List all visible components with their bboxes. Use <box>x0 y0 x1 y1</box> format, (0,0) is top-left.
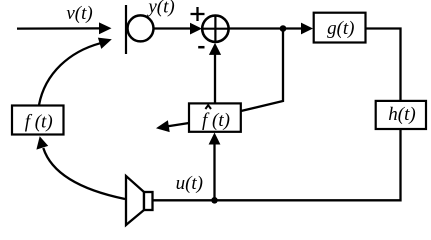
label + (plus sign at summer) <box>191 7 205 21</box>
svg-text:h(t): h(t) <box>388 104 415 125</box>
node A junction dot <box>280 25 287 32</box>
wire summer to g(t) <box>229 23 313 35</box>
svg-text:g(t): g(t) <box>327 18 354 39</box>
block f(t) <box>12 106 64 135</box>
wire node A down to f-hat right side <box>241 29 283 112</box>
loudspeaker LS1 <box>126 176 153 225</box>
wire node B up to f-hat input arrow <box>209 133 221 201</box>
svg-text:f (t): f (t) <box>202 110 230 131</box>
block f-hat(t) <box>189 103 241 131</box>
microphone M1 <box>126 5 154 54</box>
wire f(t) to microphone (curved echo path) <box>39 38 112 105</box>
wire loudspeaker to f(t) (curved feedback) <box>36 136 125 199</box>
wire h(t) to loudspeaker (bottom bus) <box>153 129 401 200</box>
wire f-hat output to summer minus input <box>209 43 221 103</box>
block h(t) <box>376 101 426 129</box>
block g(t) <box>314 13 366 43</box>
wire microphone to summer <box>154 23 203 35</box>
wire g(t) to h(t) <box>366 29 401 102</box>
svg-text:y(t): y(t) <box>146 0 174 17</box>
label - (minus sign at summer) <box>198 46 204 49</box>
svg-text:f (t): f (t) <box>25 112 53 133</box>
node B junction dot on u(t) line <box>211 197 218 204</box>
wire f-hat error output arrow (to the left) <box>156 120 189 132</box>
svg-text:v(t): v(t) <box>66 3 92 24</box>
svg-text:u(t): u(t) <box>176 173 203 194</box>
wire v(t) input arrow <box>17 22 112 34</box>
summing junction S1 <box>202 16 228 42</box>
